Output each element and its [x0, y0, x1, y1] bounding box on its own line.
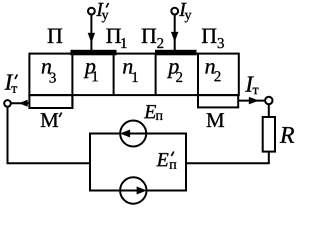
source loop rectangle — [90, 134, 186, 191]
left gate wire — [90, 15, 92, 51]
junction boundary p2/n2 — [197, 54, 199, 108]
left gate metal contact bar — [71, 50, 117, 56]
label I't anode current — [5, 75, 14, 90]
label R — [280, 127, 294, 143]
right gate arrowhead — [171, 32, 178, 42]
right terminal circle — [265, 97, 272, 104]
EMF source Ep circle — [120, 121, 146, 147]
label P junction — [48, 29, 63, 43]
label E'p supply EMF — [156, 153, 168, 166]
label It cathode current — [245, 77, 254, 92]
left terminal circle — [4, 100, 11, 107]
junction boundary n3/p1 — [71, 54, 73, 108]
EMF source E'p arrow — [120, 190, 140, 192]
label n2 region — [205, 63, 214, 73]
left gate terminal circle — [88, 8, 95, 15]
junction boundary n1/p2 — [155, 54, 157, 96]
bottom left horizontal wire — [7, 162, 92, 164]
label n1 region — [123, 63, 132, 73]
label Iu gate current right — [179, 3, 187, 16]
EMF source E'p circle — [120, 177, 146, 203]
label M' metal contact — [41, 113, 58, 127]
junction boundary p1/n1 — [113, 54, 115, 96]
right terminal wire — [239, 100, 265, 102]
left gate arrowhead — [88, 33, 95, 43]
label p1 region — [84, 63, 96, 78]
left vertical wire — [7, 107, 9, 164]
label P3 junction — [202, 29, 217, 43]
right gate terminal circle — [171, 8, 178, 15]
left terminal wire — [11, 102, 30, 104]
wire resistor to bottom — [268, 152, 270, 164]
right contact step M region — [198, 95, 238, 107]
left contact step M-prime region — [29, 95, 72, 108]
bottom right horizontal wire — [186, 162, 270, 164]
right gate wire — [174, 15, 176, 51]
EMF source Ep arrow — [126, 133, 146, 135]
wire terminal to resistor — [268, 104, 270, 117]
label n3 region — [42, 63, 51, 73]
label I'u gate current left — [96, 3, 104, 16]
label Ep supply EMF — [144, 105, 156, 118]
right gate metal contact bar — [155, 50, 197, 56]
label p2 region — [167, 63, 179, 78]
left terminal arrowhead — [20, 100, 28, 107]
label P2 junction — [142, 29, 157, 43]
resistor R — [263, 117, 275, 152]
label P1 junction — [106, 29, 121, 43]
right terminal arrowhead — [249, 97, 259, 104]
label M metal contact — [207, 113, 224, 127]
semiconductor bar body — [29, 54, 238, 96]
